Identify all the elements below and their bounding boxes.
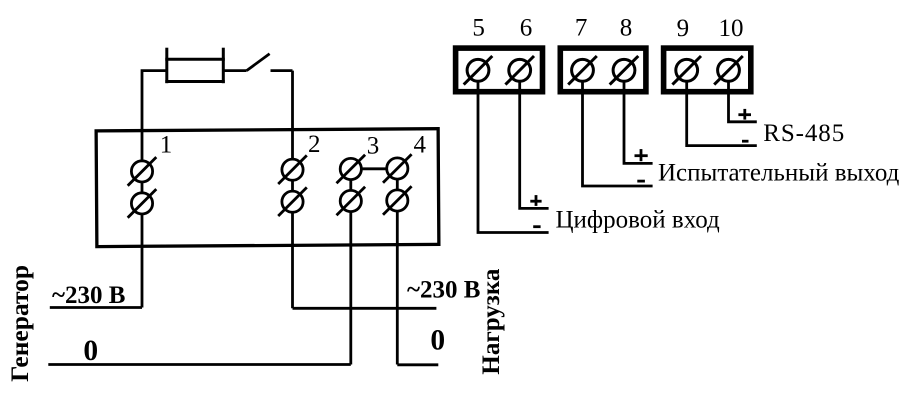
svg-text:10: 10 [719,15,744,42]
svg-text:~230 В: ~230 В [407,277,480,304]
wire terminal 7 minus [583,70,653,186]
svg-text:~230 В: ~230 В [52,282,125,309]
plus sign RS-485 [738,109,751,120]
terminal 2 [278,155,307,216]
wire terminal 4 down [396,170,399,365]
wire link terminals 3-4 [351,167,398,170]
wire terminal 9 minus [687,70,757,145]
svg-text:1: 1 [160,132,173,159]
terminal 1 [128,157,157,218]
wire terminal 3 down [349,170,352,365]
minus sign digital input [533,225,540,228]
wire 0 load line [397,363,438,366]
plus sign test output [635,149,648,161]
wire ~230V generator line [50,306,142,309]
svg-text:Испытательный выход: Испытательный выход [658,160,900,187]
svg-text:7: 7 [575,15,588,42]
plus sign digital input [530,195,541,206]
svg-text:Нагрузка: Нагрузка [478,268,505,374]
svg-text:4: 4 [413,131,426,158]
wire terminal 6 plus [520,70,549,208]
wire from switch to terminal 2 [291,71,294,309]
terminal 4 [383,154,412,215]
terminal 5 [464,56,493,85]
wire terminal 8 plus [624,70,653,163]
terminal 10 [714,56,743,85]
svg-text:5: 5 [472,15,485,42]
svg-text:0: 0 [430,325,445,357]
fuse F1 [165,48,225,83]
svg-text:Цифровой вход: Цифровой вход [556,207,721,234]
minus sign test output [637,180,645,183]
switch S1 [223,54,292,71]
wire terminal 5 minus [478,70,549,232]
terminal block 9-10 [664,48,751,92]
wire 0 generator line [48,363,351,366]
terminal block 7-8 [560,48,646,92]
terminal 8 [610,56,639,85]
svg-text:2: 2 [308,131,321,158]
svg-text:9: 9 [677,15,690,42]
svg-text:6: 6 [520,15,533,42]
wire ~230V load line [293,307,437,310]
terminal block 5-6 [456,48,543,92]
svg-text:Генератор: Генератор [5,265,34,382]
minus sign RS-485 [742,140,749,143]
terminal 9 [672,56,701,85]
terminal 7 [568,56,597,85]
svg-text:RS-485: RS-485 [763,120,845,147]
meter terminal box [96,129,439,247]
svg-text:0: 0 [83,335,98,367]
terminal 3 [337,155,366,216]
terminal 6 [505,56,534,85]
wire terminal 10 plus [729,70,757,122]
svg-text:8: 8 [620,15,633,42]
wire from fuse to terminal 1 [142,71,167,308]
svg-text:3: 3 [367,132,380,159]
